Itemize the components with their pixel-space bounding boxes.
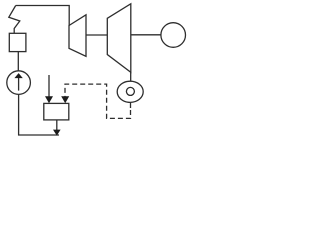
pump M1 (concentric circles)	[117, 81, 143, 102]
box B1 (fuel conditioner)	[9, 33, 26, 51]
wire: turbine to generator	[131, 34, 161, 36]
valve V1 (zigzag)	[9, 6, 20, 34]
wire: turbine exhaust stub to pump M1	[130, 72, 132, 81]
generator G1	[161, 23, 186, 48]
box B2 (condenser)	[44, 103, 69, 120]
compressor C1	[69, 15, 86, 57]
dashed line: control/bypass run from pump M1 to condenser	[65, 84, 131, 118]
wire: pump P1 down and along bottom to condenser outlet	[19, 94, 59, 135]
pump P1 (circle with up arrow)	[7, 71, 31, 95]
arrow: cooling inflow into condenser	[45, 75, 53, 103]
wire: compressor to turbine	[86, 34, 107, 36]
arrow: condenser outlet onto bottom wire	[53, 120, 61, 136]
wire: box B1 to pump P1	[17, 52, 19, 71]
turbine T1	[107, 4, 131, 73]
wire: top feed from valve to compressor inlet	[16, 6, 69, 26]
arrow: dashed-line inflow into condenser	[61, 96, 69, 103]
